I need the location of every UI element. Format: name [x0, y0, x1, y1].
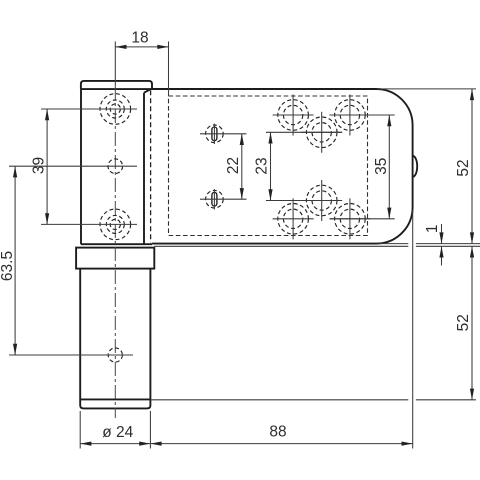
vertical centerline of hole column and barrel	[114, 41, 116, 86]
dimension 35 (outer row spacing)	[330, 114, 395, 116]
frame profile contact area (dashed)	[169, 96, 368, 236]
cluster hole top-right	[335, 100, 366, 131]
dimension 1 (gap)	[441, 224, 443, 244]
cluster hole mid-upper	[306, 117, 337, 148]
cluster hole top-left	[278, 100, 309, 131]
dimension 88 (bottom)	[412, 210, 414, 449]
dimension 18 (top)	[168, 41, 170, 95]
leaf middle hole	[108, 159, 123, 174]
leaf top hole	[100, 94, 131, 125]
svg-text:22: 22	[225, 157, 242, 174]
hinge barrel cylinder	[80, 269, 150, 409]
dimension 63.5 (left)	[9, 165, 137, 167]
svg-text:39: 39	[31, 157, 48, 174]
frame plane line right of collar	[154, 245, 408, 247]
svg-text:1: 1	[424, 224, 441, 233]
svg-text:ø 24: ø 24	[102, 424, 133, 441]
dimension 23 (middle hole spacing)	[266, 131, 342, 133]
dimension 39 (left, leaf holes)	[41, 108, 137, 110]
cluster hole bottom-right	[335, 204, 366, 235]
arm bottom edge extension line	[378, 243, 408, 245]
cluster hole mid-lower	[306, 185, 337, 216]
leaf bottom hole	[100, 209, 131, 240]
svg-text:88: 88	[269, 424, 286, 441]
svg-text:52: 52	[455, 159, 472, 176]
adjustment pin bump on right edge	[413, 156, 418, 177]
slotted hole 1	[206, 125, 224, 143]
svg-text:63.5: 63.5	[0, 251, 16, 281]
dimension 52 (lower right)	[150, 399, 408, 401]
svg-text:23: 23	[253, 157, 270, 174]
frame leaf plate outline	[80, 89, 82, 244]
slotted hole 2	[206, 190, 224, 208]
top cap of frame leaf	[81, 81, 152, 89]
cluster hole bottom-left	[278, 204, 309, 235]
hinge arm body outline	[152, 89, 413, 244]
hidden edge of leaf (dashed)	[150, 90, 152, 242]
dimension diameter 24 (bottom)	[79, 411, 81, 449]
svg-text:35: 35	[373, 158, 390, 175]
svg-text:18: 18	[131, 30, 148, 47]
collar of barrel	[76, 248, 154, 269]
dimension 22 (slot spacing)	[200, 133, 247, 135]
barrel grease hole	[108, 348, 122, 362]
svg-text:52: 52	[455, 314, 472, 331]
dimension 52 (upper right)	[377, 88, 476, 90]
